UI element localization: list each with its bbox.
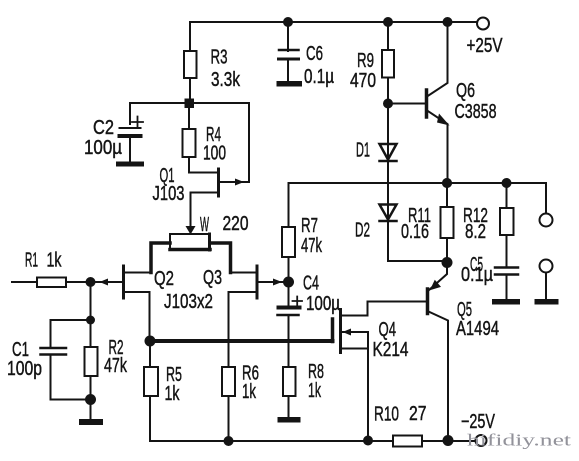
transistor Q4 gate bar <box>331 319 335 342</box>
node R9 top <box>383 17 393 27</box>
wire Q2 drain stub <box>124 272 152 274</box>
arrow Q5 emitter <box>430 280 441 291</box>
svg-text:0.1µ: 0.1µ <box>461 264 493 286</box>
wire thick gate rail Q2-source to Q4 gate <box>150 339 333 343</box>
node source rail left <box>145 336 156 347</box>
node Q4 source bottom <box>363 436 373 446</box>
wire Q2 source <box>124 292 150 341</box>
wire C4 top stub <box>288 282 290 306</box>
terminal output return <box>540 260 553 273</box>
capacitor C1 <box>41 347 67 350</box>
wire C4 bottom through rail to R8 <box>288 317 290 368</box>
svg-text:Q3: Q3 <box>203 267 222 289</box>
node Q5 collector bottom <box>443 435 454 446</box>
wire Q5 collector <box>429 312 449 441</box>
terminal +25V <box>477 18 489 30</box>
node R12 top <box>502 178 512 188</box>
node mid rail Q6 emitter <box>442 178 452 188</box>
diode D1 <box>387 104 389 162</box>
wire Q1 gate loop to junction <box>194 103 249 182</box>
node R3/R4/Q1-gate junction <box>185 99 195 109</box>
wire Q4 source down <box>367 332 369 441</box>
svg-text:100: 100 <box>203 143 226 165</box>
arrow Q6 emitter <box>437 114 450 126</box>
svg-text:470: 470 <box>350 70 376 92</box>
arrow Q3 gate <box>273 279 282 286</box>
svg-text:100µ: 100µ <box>84 137 122 159</box>
transistor Q4 channel bar <box>339 310 342 353</box>
wire R3 bottom stub <box>189 78 191 99</box>
wire pot left lead <box>151 243 170 273</box>
svg-text:100p: 100p <box>7 358 42 380</box>
wire Q3 source stub <box>229 291 258 293</box>
node R6 bottom <box>224 436 234 446</box>
svg-text:1k: 1k <box>165 383 181 405</box>
svg-text:100µ: 100µ <box>306 293 340 315</box>
svg-text:R9: R9 <box>357 50 374 72</box>
ground C2 <box>116 162 144 167</box>
terminal -25V <box>476 435 487 446</box>
wire C2 branch <box>130 103 185 124</box>
node Q5 emitter junction <box>442 257 453 268</box>
svg-text:C3858: C3858 <box>455 101 497 123</box>
svg-text:Q2: Q2 <box>154 268 174 290</box>
wire Q5 emitter <box>429 263 448 291</box>
svg-text:47k: 47k <box>104 355 128 377</box>
svg-text:A1494: A1494 <box>456 318 499 340</box>
svg-text:W: W <box>200 214 209 236</box>
resistor R9 <box>387 22 389 50</box>
node C6 top <box>283 17 293 27</box>
svg-text:27: 27 <box>409 403 427 425</box>
capacitor C5 <box>495 266 518 269</box>
svg-text:K214: K214 <box>373 339 409 361</box>
node feedback C4 top <box>283 277 294 288</box>
capacitor C4 <box>279 306 300 310</box>
arrow potentiometer wiper <box>186 226 196 235</box>
resistor R12 <box>506 183 508 208</box>
capacitor C6 <box>279 49 299 52</box>
svg-text:J103x2: J103x2 <box>164 291 213 313</box>
resistor R10 <box>393 436 422 447</box>
ground output <box>535 299 559 305</box>
node R9 bottom <box>383 99 393 109</box>
wire pot right lead <box>210 243 231 273</box>
terminal output hot <box>540 214 553 227</box>
svg-text:Q4: Q4 <box>379 319 397 341</box>
node R2/C1 bottom <box>85 394 96 405</box>
wire Q2 gate <box>66 281 124 283</box>
resistor R2 <box>90 320 92 347</box>
wire R3 top stub <box>189 22 191 51</box>
svg-text:D1: D1 <box>356 140 370 162</box>
wire Q6 emitter <box>427 111 448 184</box>
svg-text:R1: R1 <box>25 250 38 272</box>
wire R7 top to mid rail <box>288 183 290 227</box>
wire input lead <box>12 281 37 283</box>
wire R4 bottom to Q1 drain <box>189 157 219 173</box>
wire R8 to ground <box>288 396 290 417</box>
wire Q4 drain to Q5 base <box>341 302 428 316</box>
ground C5 <box>492 299 520 305</box>
wire top supply rail <box>190 21 477 23</box>
resistor R5 <box>149 341 151 367</box>
svg-text:C4: C4 <box>303 273 319 295</box>
svg-text:R3: R3 <box>211 47 228 69</box>
transistor Q5 base bar <box>426 289 430 314</box>
svg-text:Q6: Q6 <box>456 80 475 102</box>
wire Q6 collector <box>427 22 448 97</box>
arrow Q4 body <box>343 329 352 336</box>
node input junction <box>86 277 96 287</box>
node R2/C1 top <box>86 316 95 325</box>
ground input network <box>79 419 103 425</box>
svg-text:3.3k: 3.3k <box>211 69 241 91</box>
wire Q6 base <box>388 103 427 105</box>
wire R4 top stub <box>188 107 190 129</box>
wire bottom rail left <box>150 440 393 442</box>
svg-text:+25V: +25V <box>467 35 504 57</box>
transistor Q6 base bar <box>425 90 429 117</box>
wire Q1 source <box>191 193 219 228</box>
transistor Q3 channel bar <box>256 266 259 298</box>
wire output return to ground <box>545 273 547 300</box>
svg-text:1k: 1k <box>47 250 63 272</box>
wire Q4 source stub <box>341 348 369 350</box>
wire Q3 gate <box>257 281 289 283</box>
capacitor C2 <box>120 127 141 129</box>
svg-text:220: 220 <box>223 213 249 235</box>
wire Q1 gate <box>219 181 250 183</box>
svg-text:0.16: 0.16 <box>401 221 429 243</box>
wire C6 top stub <box>287 22 289 51</box>
resistor R7 <box>282 227 295 257</box>
node Q6 collector top <box>443 17 453 27</box>
wire input node down <box>90 282 92 320</box>
wire C2 to ground <box>129 138 131 161</box>
wire bottom rail right <box>422 440 476 442</box>
svg-text:R10: R10 <box>374 404 399 426</box>
node R11 top <box>442 178 452 188</box>
diode D2 <box>387 205 389 222</box>
wire C1 top branch <box>51 320 91 347</box>
wire C1 bottom branch <box>51 355 91 400</box>
svg-text:R7: R7 <box>301 215 318 237</box>
wire Q4 body stub <box>341 331 369 333</box>
wire R7 bottom stub <box>288 257 290 282</box>
wire Q3 drain stub <box>231 272 258 274</box>
svg-text:hifidiy.net: hifidiy.net <box>467 431 571 450</box>
svg-text:1k: 1k <box>242 381 257 403</box>
resistor R8 <box>283 367 296 396</box>
wire D2 bottom link <box>388 222 447 262</box>
resistor R4 <box>183 129 196 157</box>
svg-text:0.1µ: 0.1µ <box>304 66 334 88</box>
svg-text:8.2: 8.2 <box>465 221 486 243</box>
ground C6 <box>277 81 303 87</box>
potentiometer W 220 body <box>170 234 210 250</box>
arrow Q2 gate <box>100 279 109 286</box>
svg-text:D2: D2 <box>355 220 370 242</box>
svg-text:C6: C6 <box>306 43 323 65</box>
resistor R3 <box>184 51 197 78</box>
svg-text:47k: 47k <box>301 235 323 257</box>
resistor R11 <box>446 183 448 207</box>
resistor R1 <box>37 278 66 288</box>
svg-text:J103: J103 <box>153 183 185 205</box>
transistor Q1 channel bar <box>217 169 220 196</box>
svg-text:C2: C2 <box>93 117 114 139</box>
transistor Q2 channel bar <box>122 266 125 298</box>
resistor R6 <box>228 292 230 367</box>
ground R8 <box>278 417 301 423</box>
arrow Q1 gate <box>235 179 244 186</box>
svg-text:1k: 1k <box>308 380 322 402</box>
wire mid rail <box>289 183 547 214</box>
